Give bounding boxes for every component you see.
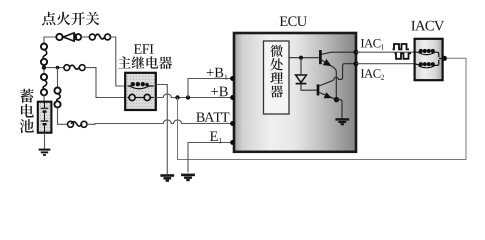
wire (81, 36, 90, 38)
wire relay coil return to ground (156, 85, 168, 175)
junction emitter node (334, 97, 339, 102)
IACV box (415, 39, 443, 80)
ground G4 inside ECU (335, 119, 349, 124)
connector pair P1 (circle-S-circle) (41, 44, 47, 66)
junction D1 (175, 95, 179, 99)
label 微处理器 (270, 45, 283, 98)
ground G3 E1 (181, 175, 195, 180)
wire fuse to relay contact (85, 68, 125, 98)
junction node battery+ (42, 65, 46, 69)
IACV common node (442, 56, 447, 61)
transistor Q2 (318, 64, 356, 99)
wire BATT with hops to ECU (87, 120, 232, 124)
label ECU (280, 16, 307, 26)
ECU pin dots left (230, 76, 235, 145)
connector pair P2 (41, 74, 47, 96)
label IAC1 (361, 39, 384, 49)
ECU box (234, 33, 356, 152)
wire switch to relay coil (110, 37, 125, 86)
microprocessor box (264, 41, 290, 114)
label BATT (196, 112, 229, 121)
ignition switch SW1 key contact (56, 33, 81, 41)
label battery 蓄电池 (20, 89, 34, 133)
relay coil (128, 82, 154, 89)
ECU pin dots right (354, 50, 359, 66)
wire +B1 branch (188, 79, 232, 98)
label EFI (134, 44, 154, 53)
junction D2 (186, 95, 190, 99)
connector pair P3 (54, 88, 60, 108)
wire E1 to ground (188, 143, 232, 173)
waveform glyph 1 (393, 44, 410, 49)
waveform glyph 2 (395, 53, 412, 58)
wire to BATT fuse (58, 108, 68, 125)
transistor Q1 (320, 50, 355, 97)
wire Q1 base (289, 57, 319, 59)
junction base node (299, 56, 303, 60)
wire battery to ground (44, 133, 46, 149)
wire to internal ground (337, 100, 343, 119)
fuse F3 BATT line (68, 121, 88, 127)
wire from node to fuse (46, 67, 64, 69)
junction node T (56, 66, 60, 70)
wire D1 down to bottom rail, right rail, to IACV (178, 58, 467, 159)
wire switch top-left corner (44, 37, 56, 44)
ground G1 battery (39, 150, 51, 155)
fuse F2 EFI main (64, 65, 85, 71)
fuse F1 on ignition line (89, 34, 110, 40)
battery B1 (38, 102, 52, 133)
label E1 (210, 131, 222, 143)
label +B (211, 87, 228, 97)
IACV coil 2 (415, 59, 444, 68)
relay K1 box (125, 73, 156, 110)
label +B1 (207, 68, 228, 80)
wire +B from relay contact with hop (156, 94, 232, 98)
IACV coil 1 (415, 49, 439, 57)
wire IAC1 (356, 51, 414, 53)
wire to battery (43, 95, 45, 101)
label ignition switch 点火开关 (42, 12, 99, 26)
wire (43, 65, 45, 74)
label 主继电器 (118, 56, 172, 69)
label IACV (411, 21, 444, 31)
ground G2 relay coil (160, 176, 174, 181)
diode D1 (296, 58, 317, 90)
label IAC2 (361, 69, 384, 79)
wire down from T (57, 68, 59, 88)
wire IAC2 (356, 63, 414, 65)
relay contacts (128, 94, 154, 100)
